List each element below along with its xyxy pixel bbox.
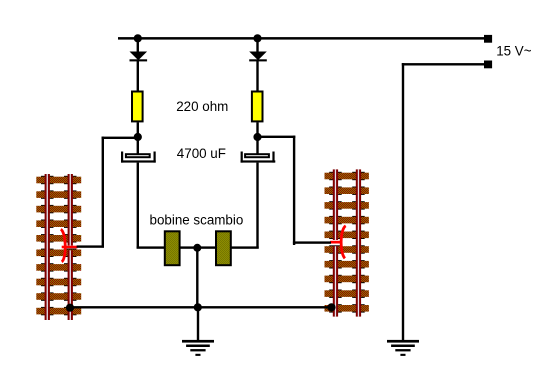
diode D2 xyxy=(249,52,267,62)
wire: node B to C2 top plate xyxy=(256,137,258,154)
junction dot: node A (R1/C1/track feed) xyxy=(134,133,142,141)
wire: coil row horizontal xyxy=(137,246,259,248)
capacitor C2 4700 uF xyxy=(241,152,276,163)
junction dot: bus / ground lead xyxy=(194,303,202,311)
wire: right track riser (vertical) xyxy=(293,136,295,245)
wire: to right track point xyxy=(293,241,331,243)
ground symbol 2 xyxy=(387,340,419,356)
svg-text:15 V~: 15 V~ xyxy=(496,43,532,58)
junction dot: left track rail / bus xyxy=(66,304,74,312)
wire: D2 anode drop xyxy=(256,38,258,51)
resistor R2 220 ohm xyxy=(251,91,264,123)
wire: D1 anode drop xyxy=(137,38,139,51)
right turnout track left rail (with isolation gap) xyxy=(333,169,338,316)
left turnout track right rail (with isolation gap) xyxy=(68,174,73,320)
wire: node A to C1 top plate xyxy=(137,137,139,154)
junction dot: top bus / diode D1 xyxy=(134,34,142,42)
left switch actuating rod (red tick) xyxy=(62,246,78,249)
diode D1 xyxy=(130,52,148,62)
wire: C1 bottom to coil row xyxy=(137,163,139,249)
wire: bus to ground symbol xyxy=(197,307,199,340)
junction dot: coil common node xyxy=(193,244,201,252)
right turnout track right rail xyxy=(356,169,361,316)
wire: to left track point xyxy=(77,245,104,247)
left turnout track tie fastening marks xyxy=(41,176,77,315)
junction dot: right track rail / bus xyxy=(327,303,335,311)
ground symbol 1 xyxy=(182,340,214,356)
svg-text:bobine scambio: bobine scambio xyxy=(150,212,244,227)
wire: bottom ground bus xyxy=(70,306,332,308)
wire: C2 bottom to coil row xyxy=(256,163,258,249)
svg-text:220 ohm: 220 ohm xyxy=(176,99,228,114)
junction dot: node B (R2/C2/track feed) xyxy=(253,133,261,141)
wire: node A stub to left track riser xyxy=(102,137,138,139)
right turnout track ties xyxy=(325,173,369,312)
right turnout track tie fastening marks xyxy=(329,172,365,313)
wire: 15V return horizontal xyxy=(402,63,484,65)
wire: R1 to node A xyxy=(137,122,139,136)
wire: top AC bus xyxy=(118,37,484,40)
left turnout track left rail xyxy=(45,174,50,320)
capacitor C1 4700 uF xyxy=(121,152,156,163)
wire: R2 to node B xyxy=(256,122,258,136)
wire: node B stub to right track riser xyxy=(258,136,296,138)
svg-text:4700 uF: 4700 uF xyxy=(177,146,226,161)
right switch point blade (red arc) xyxy=(341,226,346,258)
coil L1 (bobina scambio) xyxy=(164,230,181,266)
wire: left track riser (vertical) xyxy=(102,137,104,248)
coil L2 (bobina scambio) xyxy=(215,230,232,266)
terminal square: 15V bottom xyxy=(484,61,492,69)
wire: D1 cathode to R1 xyxy=(137,61,139,91)
terminal square: 15V top xyxy=(484,35,492,43)
right switch actuating rod (red tick) xyxy=(330,241,340,244)
wire: coil common to ground bus xyxy=(196,248,198,307)
wire: D2 cathode to R2 xyxy=(256,61,258,91)
wire: 15V return vertical to ground xyxy=(402,63,404,341)
left switch point blade (red arc) xyxy=(61,229,65,261)
junction dot: top bus / diode D2 xyxy=(253,34,261,42)
resistor R1 220 ohm xyxy=(131,91,144,123)
left turnout track ties xyxy=(36,177,81,315)
